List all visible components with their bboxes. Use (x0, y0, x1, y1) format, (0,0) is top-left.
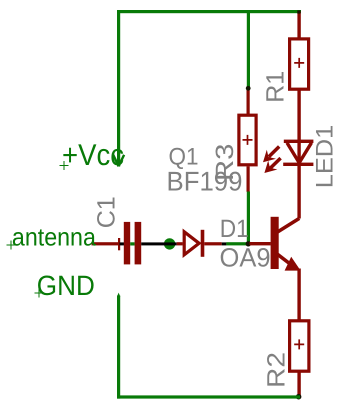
transistor Q1 (271, 217, 301, 271)
svg-text:R2: R2 (262, 352, 290, 388)
Q1 base pin (250, 242, 271, 245)
R3 top pin (247, 88, 250, 115)
capacitor C1 left plate (124, 222, 130, 265)
LED1 emission arrow lower (264, 158, 280, 173)
resistor R2 (290, 321, 309, 371)
node junction dot green (164, 238, 175, 249)
LED1 emission arrow upper (263, 147, 279, 163)
node bottom-right junction dot (296, 394, 302, 400)
wire to R3 vertical (247, 11, 250, 88)
wire Vcc left vertical (117, 10, 120, 167)
svg-text:D1: D1 (220, 215, 249, 243)
svg-text:GND: GND (37, 270, 95, 301)
resistor R3 (239, 115, 256, 165)
Vcc arrowhead (113, 155, 124, 166)
wire black segment antenna-C1 (120, 242, 125, 245)
svg-text:+Vcc: +Vcc (62, 139, 124, 172)
wire Vcc top horizontal (117, 10, 301, 13)
LED LED1 (283, 140, 313, 166)
svg-text:C1: C1 (92, 196, 120, 228)
wire black segment D1-junction (222, 242, 227, 245)
node R3 top pin dot (246, 86, 251, 91)
Q1 emitter vertical wire (red) (297, 269, 300, 397)
wire black segment C1-D1 (141, 242, 177, 245)
svg-text:R1: R1 (261, 71, 289, 103)
wire R1/LED/collector vertical (red) (297, 12, 300, 219)
svg-text:LED1: LED1 (312, 125, 339, 189)
diode D1 anode pin (177, 242, 183, 245)
svg-text:OA9: OA9 (220, 243, 271, 273)
node top-right corner dot (297, 10, 300, 13)
svg-text:antenna: antenna (12, 223, 96, 251)
GND wire top tip (117, 293, 120, 297)
diode D1 cathode bar (201, 230, 205, 257)
capacitor C1 right plate (135, 222, 142, 265)
diode D1 triangle (184, 232, 199, 255)
antenna origin cross (7, 241, 16, 250)
GND origin cross (35, 289, 44, 298)
antenna pin end tick (118, 238, 120, 250)
antenna pin (red) (92, 242, 120, 245)
wire GND vertical (117, 296, 120, 399)
wire base junction horizontal (226, 242, 249, 245)
node base junction dot (246, 241, 251, 246)
wire bottom horizontal (117, 395, 300, 398)
svg-text:BF199: BF199 (167, 166, 243, 196)
wire R3 to base junction vertical (247, 192, 250, 245)
+Vcc origin cross (60, 161, 69, 170)
wire green in C1 gap (130, 242, 134, 245)
diode D1 cathode pin (204, 242, 221, 245)
R3 bottom pin (247, 166, 250, 191)
resistor R1 (290, 39, 309, 89)
